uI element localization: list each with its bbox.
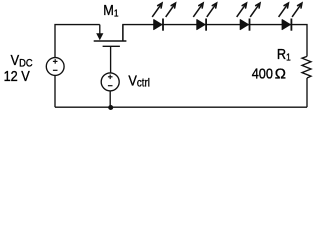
- wire: bottom rail: [55, 106, 307, 108]
- svg-text:400: 400: [252, 64, 273, 81]
- wire: R1 bottom down to bottom rail: [306, 78, 308, 107]
- LED D2: [193, 3, 216, 31]
- svg-text:M1: M1: [103, 1, 118, 19]
- LED D1: [152, 3, 175, 31]
- LED D3: [237, 3, 260, 31]
- svg-text:Ω: Ω: [275, 65, 286, 82]
- resistor R1: [302, 56, 311, 78]
- wire: Vctrl negative terminal down to bottom rail: [109, 91, 111, 107]
- wire: VDC negative terminal down to bottom rail: [54, 75, 56, 107]
- voltage source Vctrl: [101, 73, 119, 91]
- svg-text:12 V: 12 V: [4, 67, 31, 84]
- transistor M1: [94, 25, 127, 73]
- wire: M1 drain along LED string to R1 top: [123, 25, 307, 57]
- LED D4: [279, 3, 302, 31]
- voltage source VDC 12V: [46, 58, 64, 76]
- junction: Vctrl to bottom rail: [108, 105, 113, 110]
- wire: VDC positive terminal up and over to M1 source: [55, 25, 100, 58]
- svg-text:R1: R1: [277, 45, 291, 63]
- svg-text:Vctrl: Vctrl: [128, 71, 150, 89]
